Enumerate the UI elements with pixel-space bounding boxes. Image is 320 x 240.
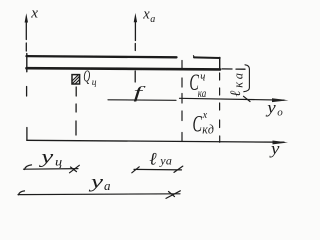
y_ц dimension line <box>24 165 80 173</box>
svg-text:уа: уа <box>159 153 172 167</box>
svg-text:ℓка: ℓка <box>228 70 246 97</box>
label C^ч_ка <box>189 70 206 101</box>
tick on y_o axis <box>244 96 251 101</box>
dashed line below Q dash3 <box>75 121 77 135</box>
y_o axis <box>180 98 289 102</box>
svg-text:f: f <box>134 83 146 102</box>
l_ка dimension bracket <box>244 65 250 92</box>
x axis dash 2 <box>26 87 28 97</box>
x axis dash 3 (corner to y axis) <box>26 128 28 141</box>
svg-text:x: x <box>30 6 38 22</box>
svg-text:C: C <box>193 112 203 137</box>
x axis dash 1 <box>25 43 27 51</box>
svg-text:y: y <box>265 98 277 117</box>
svg-text:y: y <box>269 139 280 158</box>
f dimension line <box>108 99 176 102</box>
svg-text:а: а <box>104 178 111 193</box>
x_a axis arrow <box>134 13 137 41</box>
dashed line below Q dash1 <box>75 87 77 96</box>
dashed line below Q dash2 <box>75 104 77 112</box>
svg-text:x: x <box>142 7 150 23</box>
x_a dash 2 <box>134 71 136 82</box>
beam right edge <box>219 57 221 70</box>
svg-text:y: y <box>89 172 104 192</box>
y_а dimension line <box>18 191 180 199</box>
x axis arrow <box>25 13 28 39</box>
svg-text:кд: кд <box>202 122 214 136</box>
svg-text:ч: ч <box>200 70 205 84</box>
svg-text:о: о <box>277 106 283 118</box>
l_уа dimension line <box>132 166 183 173</box>
beam top line <box>27 56 177 57</box>
x_a dash 1 <box>134 44 136 51</box>
svg-text:y: y <box>39 146 54 168</box>
svg-text:x: x <box>202 110 208 122</box>
label C^x_кд <box>193 110 214 138</box>
dashed vertical at x=219.5 <box>219 73 221 142</box>
svg-text:ℓ: ℓ <box>149 148 157 168</box>
beam bottom dashed continuation <box>222 68 232 70</box>
beam step hook <box>193 56 196 58</box>
svg-text:а: а <box>150 14 155 25</box>
beam step top line <box>194 56 220 59</box>
beam bottom line <box>27 68 221 69</box>
svg-text:ц: ц <box>55 154 63 168</box>
dashed vertical at C_ка (x=182) <box>181 61 183 141</box>
beam left edge <box>26 54 28 72</box>
svg-text:ц: ц <box>92 78 97 88</box>
y axis <box>27 140 288 144</box>
svg-text:Q: Q <box>83 66 90 85</box>
load square Q hatched <box>72 75 80 84</box>
